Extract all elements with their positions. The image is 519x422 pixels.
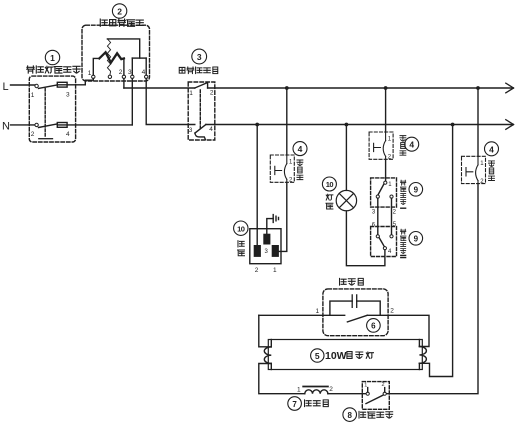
wire N bus to socket	[256, 125, 258, 246]
wire breaker QF2 to switch SA1	[385, 159, 387, 181]
two-way switch SA1 terminal 2	[390, 195, 397, 215]
wire meter t4 down to N-mid	[146, 79, 195, 125]
breaker QF1	[270, 155, 294, 184]
protector mechanical link	[199, 90, 201, 130]
two-way switch SA2 common terminal 4	[383, 247, 392, 255]
switch SA2 name vertical (shuang kong kai guan er)	[400, 229, 406, 257]
svg-text:9: 9	[414, 186, 419, 195]
N bus arrow	[506, 120, 514, 130]
socket prong L (1)	[272, 246, 278, 274]
breaker QF3 name vertical (duan lu qi)	[489, 161, 495, 181]
svg-text:7: 7	[292, 400, 297, 409]
switch SA3 blade	[366, 395, 383, 404]
svg-text:1: 1	[316, 308, 320, 315]
svg-text:6: 6	[371, 322, 376, 331]
svg-text:1: 1	[189, 90, 193, 97]
wire left filament bottom to ballast	[259, 364, 305, 394]
starter capacitor branch	[330, 295, 380, 315]
meter neutral link wire (3-4)	[132, 58, 146, 75]
lamp EL	[336, 190, 356, 210]
switch S1 terminal 2	[31, 123, 39, 138]
wire ballast to switch SA3	[328, 393, 366, 395]
two-way switch SA1 common terminal 1	[384, 181, 393, 188]
wire meter t2 down to L bus	[123, 79, 125, 89]
svg-text:2: 2	[119, 69, 123, 76]
wire switch SA2 to lamp	[346, 211, 385, 266]
two-way switch SA1 blade	[378, 184, 384, 195]
switch S1 name (shuang dao jiao ke kai guan)	[27, 66, 80, 73]
svg-text:10: 10	[237, 224, 245, 233]
traveller wires	[378, 198, 392, 234]
N bus right	[206, 124, 513, 126]
junction L-breaker QF1	[285, 86, 289, 90]
wire starter to right filament top	[367, 315, 429, 346]
tube left filament	[264, 340, 271, 370]
protector pole L blade	[189, 83, 214, 97]
two-way switch SA2 terminal 5	[390, 222, 397, 238]
meter terminal 4	[142, 69, 148, 79]
breaker QF1 label circle 4	[293, 142, 307, 156]
meter PJ enclosure	[82, 25, 150, 81]
switch S1 label circle 1	[45, 50, 59, 64]
tube right filament	[419, 340, 426, 370]
tube lamp body	[268, 340, 422, 370]
wire meter t3 down to N-left	[131, 79, 133, 125]
switch S1 enclosure	[29, 76, 75, 142]
breaker QF2 label circle 4	[405, 137, 419, 151]
fuse FU2	[57, 123, 132, 139]
starter name (qi hui qi)	[340, 278, 364, 285]
meter terminal 3	[128, 69, 134, 79]
meter internal top wire	[107, 39, 139, 58]
svg-text:4: 4	[298, 144, 303, 154]
meter voltage-coil bottom terminal	[108, 75, 111, 78]
switch S1 mechanical link	[39, 89, 53, 139]
switch S1 blade pole1	[39, 85, 58, 89]
ballast label circle 7	[288, 397, 302, 411]
protector trip hook	[195, 133, 206, 139]
breaker QF2 name vertical (duan lu qi)	[400, 136, 406, 156]
node N	[2, 121, 35, 133]
svg-text:1: 1	[364, 383, 367, 389]
wire L to meter t1	[85, 79, 93, 85]
svg-text:1: 1	[31, 92, 35, 99]
starter S enclosure	[323, 289, 388, 336]
two-way switch SA2 enclosure	[371, 227, 397, 257]
meter terminal 2	[119, 69, 126, 79]
meter current coil (thick)	[93, 52, 124, 75]
svg-text:L: L	[3, 81, 9, 93]
svg-text:2: 2	[31, 131, 35, 138]
junction L-breaker QF3	[476, 86, 480, 90]
svg-text:3: 3	[197, 52, 202, 62]
junction N-socket	[255, 123, 259, 127]
tube label circle 5	[311, 349, 324, 362]
switch SA1 label circle 9	[409, 183, 423, 197]
two-way switch SA2 terminal 6	[372, 223, 380, 238]
svg-text:10: 10	[326, 180, 334, 189]
lamp name vertical (deng zuo)	[326, 194, 333, 209]
meter terminal 1	[88, 70, 95, 79]
protector pole N blade	[189, 125, 214, 134]
svg-text:1: 1	[88, 70, 92, 77]
fuse FU1	[57, 82, 85, 98]
tube name 10W + (ri guang deng)	[325, 350, 374, 362]
wire L bus to breaker QF1	[286, 88, 288, 155]
switch SA3 terminal 2	[382, 382, 387, 395]
svg-text:4: 4	[66, 131, 70, 138]
breaker QF2	[369, 132, 393, 161]
svg-text:9: 9	[414, 235, 419, 244]
breaker QF1 name vertical (duan lu qi)	[297, 160, 303, 180]
L bus right	[208, 87, 513, 89]
svg-text:N: N	[2, 121, 10, 133]
wire breaker QF3 down to lamp switch	[386, 184, 478, 394]
junction N-lamp	[345, 123, 349, 127]
wire N bus down to tube	[419, 125, 452, 377]
svg-text:4: 4	[209, 126, 213, 133]
switch SA3 name (dan kong kai guan)	[359, 411, 393, 418]
switch SA3 terminal 1	[364, 383, 369, 396]
two-way switch SA2 blade	[379, 238, 384, 247]
node L	[3, 81, 35, 93]
socket XS label circle 10	[234, 221, 248, 235]
wire L bus to breaker QF3	[477, 88, 479, 156]
svg-text:3: 3	[128, 69, 132, 76]
socket XS name vertical (cha zuo)	[237, 241, 244, 256]
two-way switch SA1 terminal 3	[372, 195, 380, 215]
svg-text:4: 4	[409, 140, 414, 150]
two-way switch SA1 enclosure	[371, 178, 397, 207]
protector name (lou dian bao hu qi)	[179, 67, 218, 74]
breaker QF3 label circle 4	[485, 142, 499, 156]
svg-text:4: 4	[142, 69, 146, 76]
starter label circle 6	[367, 319, 381, 333]
socket XS body	[250, 229, 281, 264]
svg-text:5: 5	[315, 351, 320, 361]
svg-text:2: 2	[390, 308, 394, 315]
switch S1 terminal 1	[31, 84, 39, 99]
ballast name (zhen liu qi)	[305, 400, 329, 407]
svg-text:1: 1	[297, 387, 301, 394]
wire left node down-left of tube	[259, 315, 272, 347]
junction L-breaker QF2	[384, 86, 388, 90]
breaker QF3	[462, 156, 486, 185]
starter terminal labels	[316, 308, 395, 316]
wire N bus to lamp	[345, 125, 347, 191]
svg-text:2: 2	[117, 7, 122, 17]
ground symbol	[267, 215, 279, 235]
junction N-fluorescent	[451, 123, 455, 127]
svg-text:3: 3	[189, 127, 193, 134]
meter PJ name (dan xiang dian du biao)	[100, 19, 143, 26]
svg-text:3: 3	[66, 92, 70, 99]
svg-text:1: 1	[273, 267, 277, 274]
socket prong earth (3)	[264, 234, 270, 254]
svg-text:2: 2	[382, 382, 385, 388]
switch SA1 name vertical (shuang kong kai guan yi)	[400, 180, 406, 208]
wire breaker QF1 to socket	[278, 182, 286, 251]
svg-text:8: 8	[347, 411, 352, 420]
ballast L inductor	[297, 386, 333, 394]
wire left node to starter contact	[259, 314, 345, 316]
protector enclosure	[188, 82, 215, 140]
wire L bus to breaker QF2	[385, 88, 387, 132]
starter blade	[347, 315, 367, 322]
svg-text:4: 4	[489, 144, 494, 154]
protector QF label circle 3	[192, 49, 207, 64]
svg-text:1: 1	[50, 53, 55, 63]
svg-text:10W: 10W	[325, 350, 347, 362]
L bus arrow	[506, 83, 514, 93]
lamp label circle 10	[322, 177, 336, 191]
switch S1 blade pole2	[39, 124, 58, 128]
meter voltage coil (thin zigzag)	[107, 39, 110, 75]
switch SA3 enclosure	[362, 382, 389, 410]
switch SA2 label circle 9	[409, 232, 423, 246]
svg-text:2: 2	[210, 90, 214, 97]
svg-text:2: 2	[329, 386, 333, 393]
wire L bus meter to protector	[124, 87, 195, 89]
socket prong N (2)	[254, 246, 260, 274]
switch SA3 label circle 8	[343, 408, 357, 422]
svg-text:2: 2	[255, 267, 259, 274]
meter PJ label circle 2	[112, 4, 126, 18]
